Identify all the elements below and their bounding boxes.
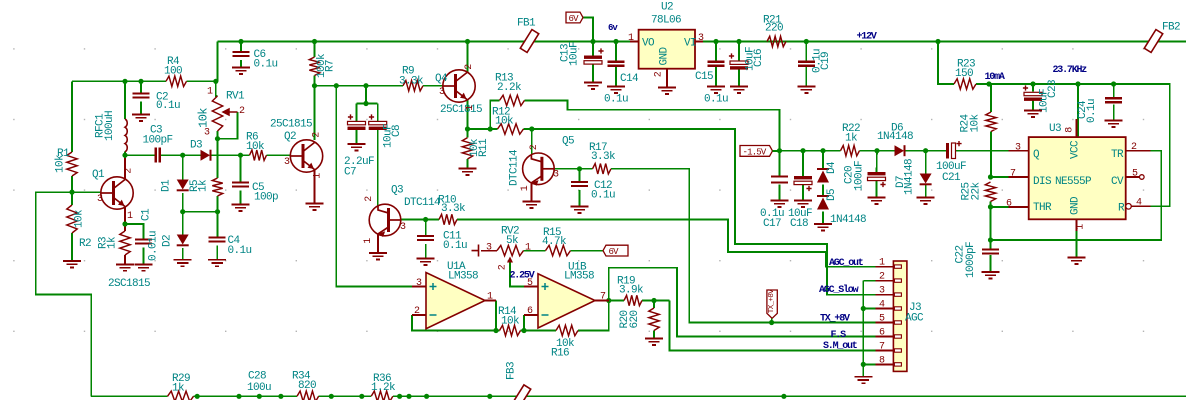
capacitor C6 0.1u <box>233 52 250 56</box>
wire: TR to THR loop <box>991 151 1162 240</box>
transistor Q1 2SC1815 <box>101 177 133 209</box>
ground C19 <box>797 87 815 93</box>
junction dots 23.7KHz rail <box>986 81 991 86</box>
svg-text:1: 1 <box>525 243 531 254</box>
svg-text:2: 2 <box>464 64 475 70</box>
capacitor C3 100pF <box>156 148 160 163</box>
junction dot C7/C8 top <box>363 101 368 106</box>
svg-text:100uF: 100uF <box>854 161 866 191</box>
svg-text:CV: CV <box>1111 176 1124 188</box>
ground C15 <box>707 87 725 93</box>
wire: vertical link rail corner x=217.5 down to R4 row <box>217 42 219 82</box>
wire: left branch x=72 down to R1 <box>71 81 73 152</box>
junction dot U1B out <box>606 298 611 303</box>
wire: Q2 collector up to R7 bottom row <box>314 86 316 140</box>
wire: C16 leads <box>738 42 740 62</box>
svg-text:3.3k: 3.3k <box>399 76 424 88</box>
svg-text:2.25V: 2.25V <box>510 271 535 282</box>
svg-text:6V: 6V <box>569 14 580 24</box>
wire: R13 branch up <box>490 100 499 129</box>
power flag 6V right <box>603 245 628 256</box>
ground C23 <box>1024 111 1042 117</box>
wire: C15 leads <box>715 42 717 62</box>
svg-text:0.1u: 0.1u <box>254 59 278 71</box>
ground C17 <box>771 201 789 207</box>
capacitor C17 0.1u <box>771 177 788 183</box>
svg-text:C19: C19 <box>820 52 832 70</box>
svg-text:10k: 10k <box>501 316 520 328</box>
wire: Q3 emitter to ground <box>377 234 379 253</box>
resistor R29 1k <box>168 391 194 400</box>
svg-text:1: 1 <box>207 87 213 98</box>
svg-text:100: 100 <box>164 66 182 78</box>
ground C13 <box>584 83 602 89</box>
wire: AGC line from R10 to J3 pin1 <box>457 220 876 267</box>
svg-text:8: 8 <box>879 355 885 366</box>
capacitor C8 10uF <box>369 121 387 124</box>
svg-text:3.3k: 3.3k <box>591 151 616 163</box>
resistor R4 100 <box>166 76 187 86</box>
ground D7 <box>917 198 935 204</box>
potentiometer RV1 10k <box>212 96 222 131</box>
wire: -1.5V rail y=150.7 <box>769 150 841 152</box>
svg-text:2SC1815: 2SC1815 <box>108 278 150 290</box>
svg-text:F.S: F.S <box>831 330 847 341</box>
wire: R15 to 6V flag <box>571 250 604 252</box>
svg-text:23.7KHz: 23.7KHz <box>1053 65 1088 76</box>
wire: R16 right up to output node <box>578 301 609 331</box>
wire: C23 leads <box>1032 84 1034 92</box>
ground Q5 <box>522 202 540 208</box>
svg-text:78L06: 78L06 <box>651 15 681 27</box>
svg-text:2: 2 <box>529 144 540 150</box>
wire: C5 bottom to ground <box>240 191 242 205</box>
svg-text:3: 3 <box>1015 143 1021 154</box>
svg-text:FB3: FB3 <box>506 362 518 380</box>
ground C2 <box>132 115 150 121</box>
ground C20 <box>868 198 886 204</box>
wire: C1 bottom to ground <box>143 248 145 265</box>
svg-text:C7: C7 <box>344 167 356 179</box>
wire: C4 leads <box>216 212 218 238</box>
resistor R14 10k <box>500 325 521 335</box>
ground C4 <box>208 260 226 266</box>
junction dot C5/R6 node <box>238 153 243 158</box>
resistor R10 3.3k <box>439 214 457 224</box>
svg-text:2: 2 <box>239 106 245 117</box>
wire: TX_+8V run from R17 to J3 pin5 <box>611 169 876 323</box>
junction dots R25 column <box>988 174 993 179</box>
diode D3 <box>201 150 211 161</box>
wire: RV1 top lead <box>216 81 218 96</box>
svg-text:Q1: Q1 <box>92 169 105 181</box>
junction dots y=129 row <box>465 126 470 131</box>
svg-text:1N4148: 1N4148 <box>877 131 913 143</box>
svg-text:C18: C18 <box>790 218 808 230</box>
svg-text:1k: 1k <box>198 179 210 192</box>
svg-text:2: 2 <box>124 168 135 174</box>
wire: R2 bottom to ground <box>71 233 73 261</box>
transistor Q2 2SC1815 <box>290 140 322 172</box>
wire: C7 bottom to ground <box>356 130 358 145</box>
svg-text:10uF: 10uF <box>569 42 581 66</box>
wire: C2 leads <box>140 81 142 93</box>
svg-text:100p: 100p <box>254 192 278 204</box>
svg-text:4.7k: 4.7k <box>542 236 567 248</box>
svg-text:LM358: LM358 <box>448 271 478 283</box>
junction dots -1.5V rail <box>777 148 782 153</box>
svg-text:1000pF: 1000pF <box>965 242 977 278</box>
svg-text:D3: D3 <box>190 140 202 152</box>
wire: Q5 collector to C12/R17 node <box>554 168 593 170</box>
svg-text:1: 1 <box>127 211 133 222</box>
svg-text:3: 3 <box>416 278 422 289</box>
capacitor C20 100uF <box>868 172 886 175</box>
svg-text:R: R <box>1118 203 1125 215</box>
svg-text:D4: D4 <box>826 161 838 174</box>
wire: U1A- feedback loop <box>412 315 500 331</box>
resistor R6 10k <box>250 150 267 160</box>
svg-text:220: 220 <box>765 23 783 35</box>
wire: U3 pin1 to ground <box>1076 231 1078 258</box>
svg-text:C28: C28 <box>248 371 266 383</box>
svg-text:0.1u: 0.1u <box>443 240 467 252</box>
svg-text:2.2k: 2.2k <box>497 82 522 94</box>
junction dot Q1 emitter node <box>122 221 127 226</box>
svg-text:10k: 10k <box>74 209 86 228</box>
svg-text:DTC114: DTC114 <box>404 197 441 209</box>
timer U3 NE555P <box>1029 137 1126 219</box>
svg-text:3: 3 <box>284 157 290 168</box>
wire: J3 ground bus pins 2,4,8 <box>863 280 875 282</box>
svg-text:620: 620 <box>629 310 641 328</box>
svg-text:10k: 10k <box>495 116 514 128</box>
wire: C18 leads <box>802 151 804 176</box>
capacitor C13 10uF <box>584 56 602 59</box>
svg-text:7: 7 <box>879 342 885 353</box>
resistor R15 4.7k <box>546 245 571 255</box>
svg-text:1N4148: 1N4148 <box>830 214 866 226</box>
wire: R20 top lead <box>653 301 655 309</box>
svg-text:D5: D5 <box>826 189 838 201</box>
pin stubs U3 <box>1009 150 1029 152</box>
wire: C20 leads <box>876 151 879 172</box>
svg-text:+12V: +12V <box>857 32 877 43</box>
resistor R17 3.3k <box>593 164 611 174</box>
svg-text:100pF: 100pF <box>143 135 173 147</box>
wire: 555 DIS row <box>991 176 1009 178</box>
junction dots J3 ground bus <box>861 306 866 311</box>
svg-text:U2: U2 <box>661 2 673 14</box>
pin stubs U2 <box>630 41 639 43</box>
svg-text:R2: R2 <box>79 238 91 250</box>
wire: C7/C8 top feed <box>365 86 367 104</box>
svg-text:0.01u: 0.01u <box>148 231 160 261</box>
wire: R13 output run to -1.5V flag node <box>525 100 780 150</box>
svg-text:2: 2 <box>312 132 323 138</box>
svg-text:R7: R7 <box>325 60 337 72</box>
wire: R7 leads <box>314 42 316 58</box>
svg-text:0.1u: 0.1u <box>156 100 180 112</box>
ferrite bead FB3 <box>512 385 530 400</box>
resistor R23 150 <box>954 79 976 89</box>
svg-text:0.1u: 0.1u <box>591 190 615 202</box>
capacitor C5 100p <box>232 183 249 187</box>
transistor Q3 DTC114 <box>369 204 401 236</box>
svg-text:6: 6 <box>1006 199 1012 210</box>
svg-text:THR: THR <box>1033 202 1052 214</box>
ground C18 <box>794 201 812 207</box>
svg-text:1: 1 <box>487 292 493 303</box>
ground R11 <box>459 169 477 175</box>
opamp U1B LM358 <box>538 274 595 328</box>
ground C16 <box>730 87 748 93</box>
wire: D2 bottom to ground <box>182 248 184 260</box>
wire: C19 leads <box>805 42 807 62</box>
svg-text:AGC_out: AGC_out <box>829 258 864 269</box>
transistor Q4 2SC1815 <box>443 70 475 102</box>
svg-text:Q5: Q5 <box>562 136 574 148</box>
svg-text:DTC114: DTC114 <box>509 149 521 186</box>
ground U3 pin1 <box>1068 258 1086 264</box>
wire: C17 leads <box>779 151 781 177</box>
wire: RV1 wiper loop to pin3 <box>218 112 238 139</box>
power flag 6V top <box>566 12 583 23</box>
wire: D7 leads <box>925 151 927 174</box>
svg-text:5: 5 <box>1132 169 1138 180</box>
svg-text:3: 3 <box>204 128 210 139</box>
svg-text:C15: C15 <box>695 71 713 83</box>
wire: C14 leads <box>615 42 617 62</box>
svg-text:-1.5V: -1.5V <box>743 147 767 157</box>
svg-text:AGC: AGC <box>905 313 924 325</box>
svg-text:0.1u: 0.1u <box>1086 99 1098 123</box>
diode D1 1N4148 <box>177 180 189 190</box>
ground C22 <box>982 272 1000 278</box>
resistor R20 620 <box>649 308 659 330</box>
svg-text:7: 7 <box>600 292 606 303</box>
pin stubs U1A <box>412 286 426 288</box>
resistor R21 220 <box>767 36 786 46</box>
svg-text:R16: R16 <box>551 348 569 360</box>
ground C24 <box>1105 121 1123 127</box>
ferrite bead FB2 <box>1144 30 1162 53</box>
connector J3 AGC <box>893 261 907 371</box>
wire: Q2 emitter to ground <box>314 170 316 204</box>
junction dot Q1 base node <box>69 190 74 195</box>
capacitor C23 10uF <box>1024 92 1042 95</box>
svg-text:0.1u: 0.1u <box>604 94 628 106</box>
diode D2 1N4148 <box>177 235 189 245</box>
capacitor C16 10uF <box>730 61 748 64</box>
svg-text:4: 4 <box>879 300 885 311</box>
svg-text:25C1815: 25C1815 <box>270 119 312 131</box>
junction dot D1 top node <box>180 153 185 158</box>
resistor R12 10k <box>498 124 524 134</box>
capacitor C22 1000pF <box>982 250 999 254</box>
svg-text:22k: 22k <box>971 182 983 201</box>
resistor R2 10k <box>67 205 77 233</box>
wire: RV2 pin3 stub <box>481 250 497 252</box>
svg-text:8: 8 <box>1065 127 1076 133</box>
svg-text:TX_+8V: TX_+8V <box>820 314 850 325</box>
svg-text:1k: 1k <box>172 383 185 395</box>
svg-text:Q4: Q4 <box>435 73 448 85</box>
wire: Q5 emitter to ground <box>530 183 532 202</box>
junction dots bottom rail <box>195 394 200 399</box>
junction dot R19/R20 node <box>651 298 656 303</box>
wire: Q5 input from row <box>531 129 533 154</box>
capacitor C4 0.1u <box>209 238 226 242</box>
svg-text:Q: Q <box>1033 149 1040 161</box>
junction dot RV1 wiper/pin3 <box>215 136 220 141</box>
ground C11 <box>417 259 435 265</box>
wire: C11 leads <box>425 220 427 237</box>
ground C14 <box>607 87 625 93</box>
svg-text:820: 820 <box>298 380 316 392</box>
svg-text:C14: C14 <box>620 73 639 85</box>
svg-text:6: 6 <box>527 306 533 317</box>
wire: C24 leads <box>1113 84 1115 98</box>
svg-text:VCC: VCC <box>1070 140 1082 159</box>
junction dots on y=211.7 row <box>180 209 185 214</box>
svg-text:3: 3 <box>486 243 492 254</box>
ground Q3 <box>369 253 387 259</box>
wire: bottom rail y=396.3 <box>91 395 167 397</box>
capacitor C18 10uF <box>794 176 812 179</box>
wire: RV2 pin1 to R15 <box>524 250 546 252</box>
svg-text:4: 4 <box>1136 198 1142 209</box>
wire: U1B output node <box>595 300 624 302</box>
svg-text:C17: C17 <box>763 218 781 230</box>
wire: C21 to 555 Q out <box>956 150 1009 152</box>
resistor R1 10k <box>67 152 77 176</box>
wire: Q1 emitter node to R3 and C1 <box>124 207 126 232</box>
wire: Q3 collector node to R10 <box>402 219 440 221</box>
svg-text:10k: 10k <box>246 141 265 153</box>
diode D4 1N4148 <box>817 168 829 170</box>
capacitor C14 0.1u <box>608 62 625 66</box>
opamp U1A LM358 <box>426 273 485 329</box>
wire: y=129 row R12/R13 node to Q5 and AGC_Slow run <box>468 128 498 130</box>
svg-text:DIS: DIS <box>1033 176 1052 188</box>
svg-text:2: 2 <box>414 306 420 317</box>
inductor RFC1 100uH <box>125 119 127 152</box>
capacitor C1 0.01u <box>135 240 152 244</box>
resistor R24 10k <box>986 112 996 132</box>
svg-text:LM358: LM358 <box>564 271 594 283</box>
svg-text:0.1u: 0.1u <box>228 245 252 257</box>
wire: C13 leads <box>592 42 594 56</box>
wire: Q4 emitter to y=129 row <box>467 99 469 129</box>
svg-text:NE555P: NE555P <box>1055 176 1092 188</box>
wire: U1A output down <box>495 301 497 331</box>
svg-text:GND: GND <box>1070 196 1082 215</box>
resistor R5 1k <box>212 178 222 196</box>
wire: 23.7KHz rail y=84 <box>976 84 1170 206</box>
junction dot RFC1/C3/Q1 node <box>122 153 127 158</box>
capacitor C21 100uF <box>946 143 949 159</box>
power flag -1.5V <box>740 146 773 157</box>
wire: y=85.7 row (R7/Q2C to R9 to Q4 base) <box>315 85 404 87</box>
svg-text:10mA: 10mA <box>985 72 1005 83</box>
svg-text:6v: 6v <box>608 23 618 33</box>
ferrite bead FB1 <box>520 30 538 53</box>
ground D2 <box>174 260 192 266</box>
svg-text:10k: 10k <box>55 154 67 173</box>
svg-text:FB1: FB1 <box>517 18 536 30</box>
svg-text:1: 1 <box>520 185 531 191</box>
wire: D4/D5 chain <box>822 151 824 169</box>
svg-text:2: 2 <box>879 272 885 283</box>
ground C1 <box>135 264 153 270</box>
wire: F.S run from U1B out up and to J3 pin6 <box>609 268 876 337</box>
wire: Q4 collector to top rail <box>467 42 469 74</box>
svg-text:3: 3 <box>553 170 559 181</box>
wire: D3 cathode to C5/R6 node <box>211 154 250 156</box>
wire: 6V flag top link to C13 <box>583 18 593 42</box>
wire: C3 right to D3 anode <box>160 154 201 156</box>
resistor R36 1.2k <box>371 391 393 400</box>
svg-text:FB2: FB2 <box>1162 22 1180 34</box>
ground C5 <box>232 205 250 211</box>
regulator U2 78L06 <box>639 30 695 69</box>
ground D5 <box>814 224 832 230</box>
wire: Q1 base node (R1 bottom, R2 top, base, long left wire) <box>71 176 73 205</box>
svg-text:10k: 10k <box>970 114 982 133</box>
wire: C8 bottom down to Q3 input <box>377 130 379 207</box>
svg-text:C21: C21 <box>942 172 961 184</box>
svg-text:100uH: 100uH <box>104 111 116 141</box>
wire: U3 VCC feed <box>1077 84 1079 137</box>
svg-text:1N4148: 1N4148 <box>904 159 916 195</box>
svg-text:C8: C8 <box>391 125 403 137</box>
junction dot Q3/C11/R10 node <box>423 217 428 222</box>
wire: top 6V rail (y=41.5) from x=217.5 to U2 pin1 and on to right edge incl. +12V rail <box>218 41 639 43</box>
resistor R22 1k <box>841 146 860 156</box>
svg-text:100u: 100u <box>247 382 271 394</box>
wire: R20 bottom to ground <box>653 331 655 339</box>
svg-text:3.9k: 3.9k <box>619 285 644 297</box>
ground C12 <box>571 207 589 213</box>
diode D7 1N4148 <box>920 174 932 184</box>
svg-text:1k: 1k <box>107 236 119 249</box>
svg-text:Q2: Q2 <box>284 131 296 143</box>
capacitor C7 2.2uF <box>348 121 366 124</box>
wire: R6 to Q2 base <box>267 154 304 156</box>
svg-text:2: 2 <box>498 264 509 270</box>
ground J3 <box>854 377 872 383</box>
svg-text:D1: D1 <box>161 179 173 192</box>
pin stubs U1B <box>524 286 538 288</box>
svg-text:1: 1 <box>363 238 374 244</box>
ground C6 <box>232 68 250 74</box>
svg-text:VO: VO <box>642 38 655 50</box>
svg-text:3: 3 <box>439 87 445 98</box>
capacitor C19 0.1u <box>798 62 815 66</box>
wire: R19 to R20 node <box>642 300 669 302</box>
diode D6 1N4148 <box>895 145 905 156</box>
wire: RFC1 bottom / C3 row / Q1 collector node <box>124 152 126 159</box>
svg-text:1: 1 <box>313 173 324 179</box>
svg-text:C1: C1 <box>141 208 153 221</box>
wire: R4 row y=81.3 from x=72 to RV1 top <box>72 80 166 82</box>
svg-text:GND: GND <box>659 47 671 66</box>
capacitor C12 0.1u <box>571 182 588 186</box>
junction dots on top rail <box>238 39 243 44</box>
svg-text:6V: 6V <box>609 247 620 257</box>
svg-text:0.1u: 0.1u <box>704 94 728 106</box>
